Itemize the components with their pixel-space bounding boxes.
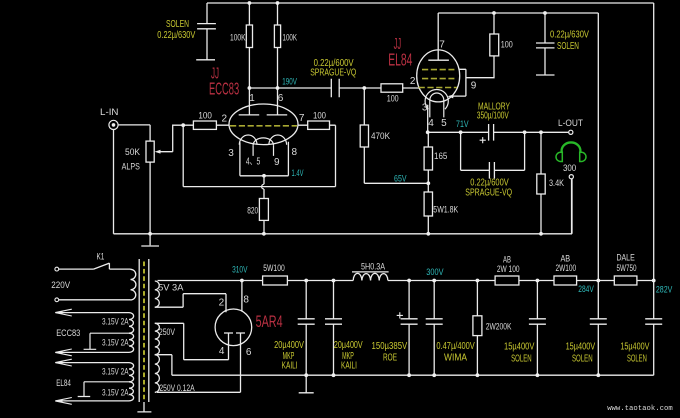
svg-text:3.15V 2A: 3.15V 2A — [102, 366, 129, 376]
svg-text:310V: 310V — [232, 265, 247, 275]
svg-text:150µ385V: 150µ385V — [372, 341, 408, 352]
svg-text:2: 2 — [410, 76, 416, 87]
svg-text:1: 1 — [249, 93, 255, 104]
svg-text:470K: 470K — [371, 131, 390, 141]
svg-text:0.22µ/630V: 0.22µ/630V — [550, 30, 589, 41]
svg-text:WIMA: WIMA — [444, 353, 467, 364]
svg-text:8: 8 — [243, 294, 249, 305]
svg-text:2W100: 2W100 — [555, 263, 576, 273]
svg-text:100: 100 — [198, 111, 212, 121]
svg-text:250V: 250V — [159, 327, 175, 337]
svg-text:KAILI: KAILI — [341, 360, 357, 371]
svg-text:6: 6 — [246, 347, 252, 358]
svg-text:SOLEN: SOLEN — [166, 19, 189, 30]
svg-text:ROE: ROE — [383, 353, 397, 364]
svg-text:www.taotaok.com: www.taotaok.com — [607, 405, 673, 413]
svg-text:100: 100 — [387, 93, 399, 103]
svg-text:3: 3 — [228, 148, 234, 159]
svg-text:2W200K: 2W200K — [486, 322, 512, 332]
svg-text:5V 3A: 5V 3A — [158, 283, 183, 293]
svg-text:EL84: EL84 — [56, 378, 71, 388]
svg-text:820: 820 — [247, 206, 258, 216]
svg-text:250V 0.12A: 250V 0.12A — [159, 383, 194, 393]
svg-text:282V: 282V — [656, 284, 672, 294]
svg-text:9: 9 — [274, 157, 280, 168]
svg-text:20µ400V: 20µ400V — [274, 340, 304, 351]
svg-text:6: 6 — [278, 93, 284, 104]
svg-text:AB: AB — [560, 254, 570, 264]
svg-text:5W1.8K: 5W1.8K — [433, 205, 458, 215]
svg-text:300: 300 — [563, 163, 576, 173]
svg-text:4: 4 — [428, 118, 434, 129]
svg-text:SPRAGUE-VQ: SPRAGUE-VQ — [465, 187, 512, 198]
svg-text:15µ400V: 15µ400V — [566, 342, 596, 353]
svg-text:350µ/100V: 350µ/100V — [477, 110, 509, 121]
svg-text:2: 2 — [222, 113, 228, 124]
svg-text:15µ400V: 15µ400V — [620, 342, 649, 353]
svg-text:50K: 50K — [125, 147, 140, 157]
svg-text:20µ400V: 20µ400V — [334, 340, 363, 351]
svg-text:15µ400V: 15µ400V — [504, 342, 535, 353]
svg-text:SOLEN: SOLEN — [557, 41, 579, 52]
svg-text:100: 100 — [501, 40, 513, 50]
svg-text:3.15V 2A: 3.15V 2A — [102, 338, 129, 348]
svg-text:3: 3 — [422, 102, 428, 113]
svg-text:9: 9 — [471, 80, 477, 91]
svg-text:DALE: DALE — [616, 252, 634, 262]
svg-text:4、5: 4、5 — [246, 157, 261, 168]
svg-text:4: 4 — [219, 346, 225, 357]
svg-text:L-OUT: L-OUT — [558, 118, 583, 128]
svg-text:KAILI: KAILI — [282, 360, 298, 371]
svg-text:0.47µ/400V: 0.47µ/400V — [436, 341, 475, 352]
svg-text:3.15V 2A: 3.15V 2A — [102, 388, 129, 398]
svg-text:5W750: 5W750 — [617, 263, 637, 273]
svg-text:ALPS: ALPS — [122, 161, 140, 171]
svg-text:300V: 300V — [426, 267, 443, 277]
svg-text:65V: 65V — [394, 174, 407, 184]
svg-text:5: 5 — [441, 118, 447, 129]
svg-text:100K: 100K — [230, 33, 246, 43]
svg-text:71V: 71V — [456, 119, 469, 129]
svg-text:220V: 220V — [51, 280, 70, 290]
svg-text:ECC83: ECC83 — [209, 78, 239, 98]
svg-text:ECC83: ECC83 — [56, 328, 80, 338]
svg-text:EL84: EL84 — [388, 49, 412, 69]
svg-text:5H0.3A: 5H0.3A — [361, 262, 385, 272]
svg-text:5W100: 5W100 — [263, 263, 285, 273]
svg-text:SOLEN: SOLEN — [572, 353, 593, 364]
svg-text:SPRAGUE-VQ: SPRAGUE-VQ — [310, 68, 356, 79]
svg-text:5AR4: 5AR4 — [256, 313, 283, 331]
svg-text:100K: 100K — [283, 33, 298, 43]
svg-text:3.4K: 3.4K — [549, 178, 564, 188]
svg-text:K1: K1 — [96, 252, 104, 262]
svg-text:3.15V 2A: 3.15V 2A — [102, 316, 129, 326]
svg-text:SOLEN: SOLEN — [627, 353, 647, 364]
svg-text:SOLEN: SOLEN — [511, 353, 532, 364]
svg-text:165: 165 — [434, 151, 447, 161]
svg-text:0.22µ/630V: 0.22µ/630V — [157, 30, 195, 41]
svg-text:AB: AB — [503, 254, 511, 264]
svg-text:L-IN: L-IN — [100, 107, 119, 117]
svg-text:2W 100: 2W 100 — [497, 264, 520, 274]
svg-text:1.4V: 1.4V — [292, 168, 304, 178]
svg-text:7: 7 — [439, 40, 445, 51]
svg-text:190V: 190V — [282, 77, 297, 87]
svg-text:8: 8 — [292, 147, 298, 158]
svg-text:284V: 284V — [578, 284, 594, 294]
svg-text:100: 100 — [313, 111, 326, 121]
svg-text:7: 7 — [299, 113, 305, 124]
svg-text:2: 2 — [219, 297, 225, 308]
